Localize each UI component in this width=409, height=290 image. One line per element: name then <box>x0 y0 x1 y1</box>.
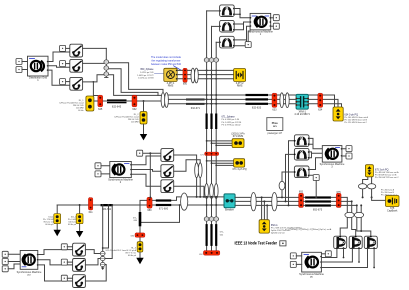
line impedance bars 632-671 (vertical) <box>206 114 218 130</box>
611 load drop 1 <box>43 205 61 236</box>
lens tick C on feeder column <box>104 72 109 76</box>
svg-text:632-645: 632-645 <box>112 106 122 109</box>
transformer T1a <box>219 5 235 17</box>
svg-text:60 Hz ph: 60 Hz ph <box>68 224 76 226</box>
svg-text:ors: ors <box>273 125 278 128</box>
transformer T1c <box>219 36 235 48</box>
junction dot 611 drop2 <box>79 204 81 206</box>
vertical feeder phase B wire <box>211 26 213 250</box>
output square m3b <box>346 153 352 159</box>
wire machine1 to m1a <box>271 17 274 19</box>
wires machine5 to transformers <box>322 249 337 258</box>
svg-text:RMS: RMS <box>168 85 174 88</box>
wire RL_3 to ground <box>139 252 141 258</box>
constant square dg4-1 <box>61 244 67 250</box>
RL_2 load yellow <box>140 112 147 125</box>
wire constant dg5 <box>322 253 326 255</box>
output square m1a <box>273 15 279 21</box>
svg-text:692-675: 692-675 <box>313 209 323 212</box>
feeder measurement column 650 <box>105 48 107 77</box>
wire dg4 breaker1 out <box>85 250 102 254</box>
junction dots lower bus x feeder <box>206 196 218 206</box>
PQ load yellow 652 <box>259 220 269 233</box>
stadium pair dg2 <box>195 163 199 178</box>
line impedance bars 632-671 (horizontal) <box>186 99 205 105</box>
svg-text:650_3phase: 650_3phase <box>140 68 154 71</box>
red node marker 634 <box>318 93 323 111</box>
transformer T3b <box>294 148 310 160</box>
ground arrow RL_3 <box>136 258 143 264</box>
svg-text:645: 645 <box>98 108 103 111</box>
bus line B (611-684-671 lower) <box>57 204 224 206</box>
riser wires bus to transformers <box>282 172 294 197</box>
breaker B2 <box>70 59 83 72</box>
wires red650 to line stadium pair <box>187 70 233 78</box>
stadium row on feeder <box>205 184 209 199</box>
wire 684 branch down <box>139 201 141 242</box>
breaker B1 <box>70 44 83 57</box>
PQ load yellow 634 <box>333 107 343 121</box>
transformer T3a <box>294 135 310 147</box>
bus stadium pair 632 <box>161 93 165 108</box>
line impedance bars 671-680 <box>156 199 171 206</box>
wire breaker1 out to stadium <box>174 155 197 163</box>
svg-text:CapBank: CapBank <box>387 210 398 213</box>
dg4 measurement lens column <box>102 205 104 268</box>
svg-text:RMS: RMS <box>237 85 243 88</box>
wire constant dg3 down to bus <box>315 181 317 198</box>
red node marker 652 <box>199 251 220 256</box>
machine1 block (Synchronous Machine) <box>248 13 273 36</box>
line impedance bars 671-652 (vertical) <box>206 224 218 246</box>
wires constants to breakers <box>67 247 72 278</box>
lens ticks row (lower) <box>204 217 209 221</box>
svg-text:671 RMS: 671 RMS <box>233 135 244 138</box>
machine2 block <box>108 162 133 184</box>
vertical feeder phase C wire <box>215 42 217 250</box>
wire c2 to breaker 2 <box>66 63 70 65</box>
tap wires to 671 RMS block <box>207 141 233 146</box>
svg-text:Ph: 1.0529 pu -122.34: Ph: 1.0529 pu -122.34 <box>222 122 243 124</box>
wire constant to machine1 <box>248 31 250 42</box>
wire machine1 to m1b <box>271 25 274 27</box>
breaker dg4-1 <box>73 243 86 256</box>
riser wires to 652 PQ load <box>262 197 268 219</box>
junction dots on vertical feeder (650 band) <box>206 69 218 79</box>
wire dg4 breaker3 out <box>85 265 106 282</box>
svg-text:Ph: 0.9778 pu 116.02: Ph: 0.9778 pu 116.02 <box>222 125 242 127</box>
wire T1c to vertical phase C <box>216 41 219 43</box>
svg-text:s (-1)*[W/Var] (-1)*[W/Var]: s (-1)*[W/Var] (-1)*[W/Var] (-1)*[W/var]… <box>285 228 332 231</box>
input square dg4-a <box>2 251 8 257</box>
red node marker 680 <box>147 197 152 212</box>
line impedance bars 632-645 <box>107 99 127 103</box>
svg-text:Ph: 290 kW 212 kvar set C: Ph: 290 kW 212 kvar set C <box>375 176 399 179</box>
wire to capbank <box>372 197 386 200</box>
bus 632 single line left <box>94 100 161 102</box>
text 675 load values <box>375 168 399 179</box>
wire breaker3 out to feeder column <box>83 75 104 82</box>
input square dg2-a <box>95 163 101 169</box>
breaker dg2-2 <box>161 165 174 178</box>
svg-text:675: 675 <box>337 191 342 194</box>
transformer T3c <box>294 166 310 178</box>
constant square c1 <box>60 45 66 51</box>
svg-text:652-G: 652-G <box>271 224 278 227</box>
svg-text:684-611: 684-611 <box>102 208 112 211</box>
wires squares to machine4 <box>8 254 20 268</box>
wire drop to RL_2 <box>143 101 145 112</box>
line impedance bar 684-611 <box>101 204 113 206</box>
bus 632 phase B line <box>168 99 338 107</box>
svg-text:632: 632 <box>132 108 137 111</box>
wire c1 to breaker 1 <box>66 47 70 49</box>
stadium pair 633 <box>280 93 284 108</box>
svg-text:60 Hz ph: 60 Hz ph <box>45 224 53 226</box>
svg-text:671_3phase: 671_3phase <box>222 115 236 118</box>
source machine block (Distribution Grid) <box>28 56 49 82</box>
constant square below machine1 <box>245 42 251 48</box>
bus 692 phase lines <box>235 197 299 205</box>
pointer line text to RMS block <box>155 72 164 74</box>
bus line A (671-680 upper, jogs up) <box>140 197 224 201</box>
RMS measurement yellow block 650 <box>164 68 178 87</box>
stadium pair 675 load (horizontal) <box>358 184 366 189</box>
cyan breaker block 671-692 <box>224 194 235 212</box>
svg-text:1.0420 pu -121.72: 1.0420 pu -121.72 <box>137 75 154 77</box>
staircase wire phase C to bus stadium <box>109 75 158 96</box>
input port square In2 <box>16 67 22 73</box>
input port square In1 <box>16 59 22 65</box>
svg-text:60 Hz: 60 Hz <box>78 110 83 112</box>
breaker dg4-3 <box>73 275 86 288</box>
constant square dg4-2 <box>61 259 67 265</box>
tap wires to 671 PQ block <box>207 161 234 166</box>
transformer T5a <box>334 236 347 249</box>
svg-text:671-: 671- <box>220 231 224 233</box>
stadium marker 692-1 <box>251 193 256 211</box>
wires machine2 to breakers <box>132 156 161 165</box>
loop wire 684 to bus <box>140 205 180 222</box>
611 load drop 2 <box>68 205 83 237</box>
wire RL_2 to ground <box>143 124 145 134</box>
output square m3a <box>346 146 352 152</box>
wire T1b to vertical phase B <box>212 25 220 27</box>
junction dots taps <box>206 140 217 146</box>
line stadium pair 650-632 <box>191 68 195 83</box>
ground arrow RL_2 <box>140 134 147 140</box>
text 650_3phase values <box>137 68 154 79</box>
junction dot RL_2 drop <box>143 100 145 102</box>
svg-text:powergui 1 P: powergui 1 P <box>268 132 283 135</box>
staircase wire phase B to bus stadium <box>109 69 166 96</box>
svg-text:632-633: 632-633 <box>252 106 262 109</box>
svg-text:0ph0/0 0.32 set: 0ph0/0 0.32 set <box>271 232 285 235</box>
machine5 block <box>299 252 324 278</box>
annotation pointer arrow <box>174 66 181 70</box>
text RL_1 values <box>59 100 84 112</box>
svg-text:611: 611 <box>89 211 94 214</box>
staircase wire T1a to machine1 <box>234 9 250 18</box>
svg-text:634: 634 <box>318 108 323 111</box>
stadium pair 675 risers (horizontal) <box>345 212 354 217</box>
capbank yellow 675 <box>386 196 400 213</box>
svg-text:between nodes 650 and 632: between nodes 650 and 632 <box>151 62 181 66</box>
junction dots bus x feeder <box>206 94 218 105</box>
wires machine3 to squares <box>342 149 346 156</box>
svg-text:100 MW: 100 MW <box>131 122 139 124</box>
text RL_2 values <box>114 114 139 124</box>
constant square dg5-top <box>325 251 331 257</box>
bus 632 phase C line <box>168 104 341 107</box>
svg-text:632-671: 632-671 <box>191 107 201 110</box>
wires squares to machine5 <box>296 256 301 265</box>
svg-text:60 Hz ph: 60 Hz ph <box>128 255 136 257</box>
machine3 block <box>320 146 345 169</box>
wire In2 to source <box>22 69 28 71</box>
stadium marker dg3 riser <box>279 181 285 190</box>
svg-text:4.16 kV/480 V: 4.16 kV/480 V <box>294 113 310 116</box>
staircase wire T1b to machine1 <box>234 22 250 30</box>
input square dg5-a <box>290 253 296 259</box>
svg-text:650: 650 <box>183 83 188 86</box>
measurement yellow block 633 RMS <box>234 69 246 88</box>
staircase wires T3 to machine3 <box>309 138 322 148</box>
text 652 load values <box>271 224 302 235</box>
input square dg4-b <box>2 259 8 265</box>
big stadium marker 671 bus <box>181 193 188 210</box>
svg-text:675 3-ph PQ: 675 3-ph PQ <box>375 168 389 171</box>
constant square c2 <box>60 61 66 67</box>
input square dg4-c <box>2 266 8 272</box>
svg-text:692: 692 <box>299 191 304 194</box>
short link wires 692-675 <box>304 197 337 205</box>
svg-text:Ph: 200 kvar A: Ph: 200 kvar A <box>381 188 395 191</box>
wire c3 to breaker 3 <box>66 81 70 83</box>
red node marker 675 <box>336 191 341 208</box>
breaker dg2-1 <box>161 149 174 162</box>
RL_1 load yellow <box>86 96 94 111</box>
line impedance bars 692-675 <box>305 196 331 206</box>
measurement yellow block 671 RMS <box>231 133 245 148</box>
red node marker 632 <box>132 95 137 111</box>
wire source phase C to breaker 3 <box>48 70 70 85</box>
red node marker 611 <box>88 198 93 214</box>
red node marker 650 <box>183 68 188 85</box>
text 634 load values <box>344 114 368 125</box>
breaker B3 <box>70 77 83 90</box>
svg-text:Breaker: Breaker <box>225 208 234 211</box>
svg-text:IEEE 13 Node Test Feeder: IEEE 13 Node Test Feeder <box>235 241 278 246</box>
wire breaker3 out to bus <box>174 186 204 197</box>
svg-text:633: 633 <box>272 108 277 111</box>
svg-text:671 3-ph PQ: 671 3-ph PQ <box>233 168 247 171</box>
svg-text:Ph: 0.9900 pu -5.30: Ph: 0.9900 pu -5.30 <box>222 119 240 121</box>
red node marker 692 <box>299 191 304 208</box>
lens tick B on feeder column <box>104 66 109 70</box>
wires stadium to bus <box>197 178 201 197</box>
wires machine4 to breakers <box>38 250 72 255</box>
staircase wire phase A to bus stadium <box>109 63 163 93</box>
wire source phase A to breaker 1 <box>48 52 70 62</box>
line impedance bar 671-684 (vertical) <box>139 212 142 226</box>
svg-text:1.0210 pu 2.49: 1.0210 pu 2.49 <box>140 72 154 74</box>
red node marker 671 (horizontal strip) <box>200 152 218 156</box>
red node marker 645 <box>98 95 103 111</box>
wire source phase B to breaker 2 <box>48 66 70 67</box>
wires squares to machine2 <box>101 166 110 174</box>
wire dg4 breaker2 out <box>85 259 102 265</box>
extra pin stubs transformers <box>344 249 375 268</box>
red node marker 684 (horizontal) <box>131 233 145 238</box>
input square dg5-b <box>290 261 296 267</box>
lens ticks row (top) <box>204 58 209 62</box>
XFM-1 transformer cyan block <box>294 94 310 116</box>
breaker dg4-2 <box>73 259 86 272</box>
staircase wire T1c to machine1 <box>234 26 250 46</box>
machine4 block <box>17 251 42 277</box>
dg4 riser taps <box>103 205 109 248</box>
wire RMS to red 650 <box>177 70 182 78</box>
junction + wire to load RL_1 <box>93 81 95 83</box>
svg-text:1.0174 pu 117.83: 1.0174 pu 117.83 <box>138 78 154 80</box>
junction dot + drop wire to bus <box>149 152 151 154</box>
svg-text:671-680: 671-680 <box>159 208 169 211</box>
output square m1b <box>273 23 279 29</box>
PQ load yellow 671 <box>233 159 247 171</box>
input square dg2-b <box>95 171 101 177</box>
lens tick A on feeder column <box>104 60 109 64</box>
wire breaker2 out to feeder column <box>83 62 104 64</box>
PQ load yellow 675 <box>365 165 373 177</box>
constant square c3 <box>60 79 66 85</box>
wires 675 right + risers down <box>340 197 347 236</box>
RL_3 load yellow <box>137 242 143 252</box>
wire breaker2 out to stadium <box>174 160 201 171</box>
wire breaker1 out to feeder column <box>83 47 107 49</box>
svg-text:634 3-ph PQ: 634 3-ph PQ <box>344 114 358 117</box>
constant square dg3 below <box>313 175 319 181</box>
wires 675 PQ load drop <box>363 177 372 198</box>
text 671_3phase values <box>222 115 243 126</box>
bus 632 phase A line <box>168 95 334 107</box>
constant square dg2-top <box>137 150 143 156</box>
wire constant to breaker row <box>143 152 161 154</box>
breaker dg2-3 <box>161 180 174 193</box>
svg-text:Ph: 120 kW 90 kvar set C: Ph: 120 kW 90 kvar set C <box>344 121 367 124</box>
text 675 capbank values <box>381 188 398 196</box>
transformer T5c <box>364 236 377 249</box>
red node marker 633 <box>272 93 277 111</box>
stadium marker 692-2 <box>272 193 277 211</box>
text RL_3 values <box>105 247 137 257</box>
wire T1a to vertical phase A <box>207 10 220 12</box>
transformer T5b <box>349 236 362 249</box>
note square <box>280 241 286 246</box>
vertical feeder phase A wire <box>206 11 208 251</box>
svg-text:680: 680 <box>147 209 152 212</box>
line impedance bars 632-633 <box>246 94 269 105</box>
constant square dg4-3 <box>61 275 67 281</box>
transformer T1b <box>219 20 235 32</box>
wire In1 to source <box>22 61 28 63</box>
